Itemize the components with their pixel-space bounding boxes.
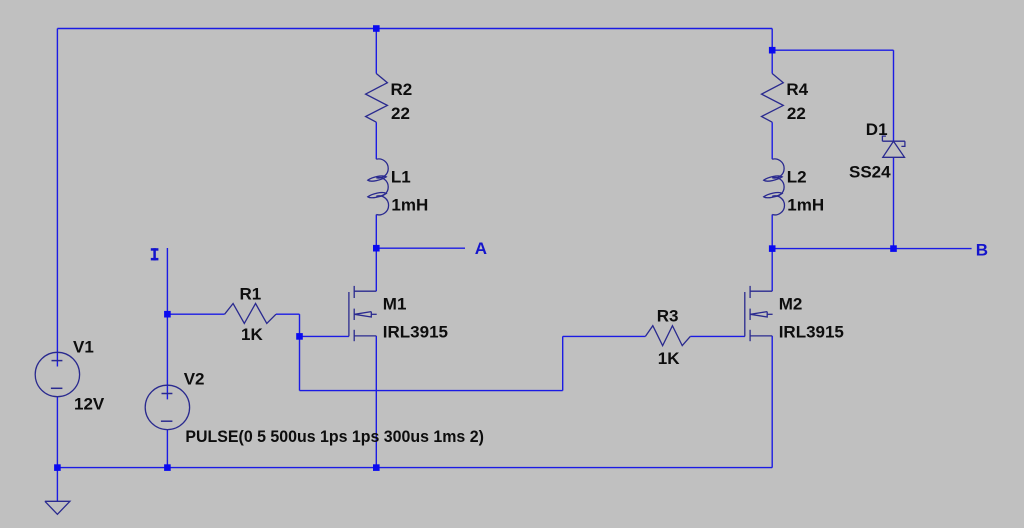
- svg-text:12V: 12V: [74, 395, 105, 414]
- svg-text:22: 22: [787, 104, 806, 123]
- svg-text:V2: V2: [184, 370, 205, 389]
- svg-text:22: 22: [391, 104, 410, 123]
- svg-text:A: A: [475, 239, 487, 258]
- svg-text:R4: R4: [786, 80, 808, 99]
- svg-text:D1: D1: [866, 120, 888, 139]
- svg-text:R1: R1: [240, 284, 262, 303]
- svg-text:1mH: 1mH: [787, 195, 824, 214]
- svg-text:IRL3915: IRL3915: [383, 322, 448, 341]
- svg-text:R2: R2: [391, 80, 413, 99]
- svg-text:IRL3915: IRL3915: [779, 322, 844, 341]
- svg-text:V1: V1: [73, 338, 94, 357]
- svg-text:M2: M2: [779, 294, 803, 313]
- svg-text:PULSE(0 5 500us 1ps 1ps 300us: PULSE(0 5 500us 1ps 1ps 300us 1ms 2): [185, 427, 484, 446]
- svg-text:SS24: SS24: [849, 162, 891, 181]
- svg-text:M1: M1: [383, 294, 407, 313]
- svg-text:1K: 1K: [241, 325, 263, 344]
- svg-text:L2: L2: [787, 167, 807, 186]
- svg-text:1mH: 1mH: [391, 195, 428, 214]
- svg-text:1K: 1K: [658, 349, 680, 368]
- svg-text:L1: L1: [391, 167, 411, 186]
- svg-text:B: B: [976, 241, 988, 260]
- svg-text:R3: R3: [657, 306, 679, 325]
